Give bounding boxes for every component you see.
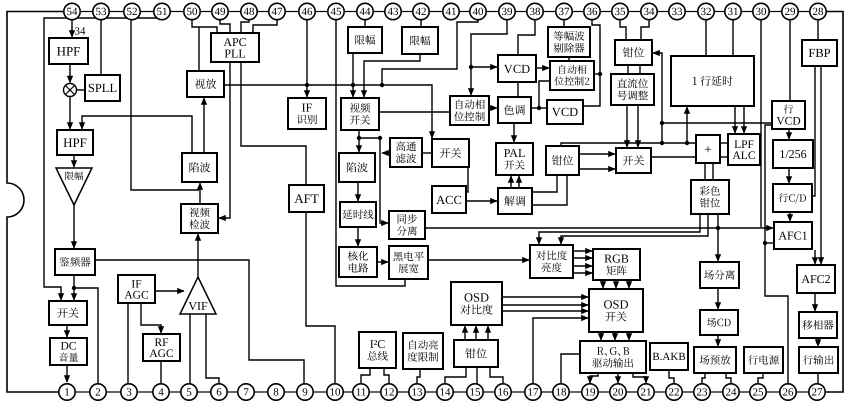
wire hue to VCD2 [531, 107, 547, 109]
pin 33 [669, 3, 685, 19]
wire pin49 to APC PLL [220, 20, 230, 33]
svg-text:AFC2: AFC2 [801, 272, 830, 286]
svg-text:34: 34 [644, 6, 656, 18]
block FM discriminator [55, 249, 95, 275]
wire field sep to field CD [717, 288, 719, 309]
junction node at 539,108 [537, 106, 541, 110]
wire pin34 to clamp1 [641, 20, 649, 40]
block DC level adjust [611, 74, 654, 105]
wire clamp1 to DC adjust b [639, 65, 641, 74]
block auto brightness limit [403, 333, 443, 369]
svg-text:ALC: ALC [733, 150, 756, 162]
block FBP [802, 40, 837, 66]
svg-text:50: 50 [187, 6, 199, 18]
wire APC PLL to AFT [241, 62, 306, 185]
wire node link [359, 137, 380, 139]
block limiter 4 [402, 27, 438, 54]
pin 20 [610, 384, 626, 400]
svg-text:6: 6 [216, 387, 222, 399]
block ACC [432, 186, 466, 213]
wire demod to PAL a [510, 176, 512, 188]
svg-text:14: 14 [440, 387, 452, 399]
svg-text:OSD: OSD [464, 291, 489, 305]
pin 37 [556, 3, 572, 19]
block PAL switch [496, 143, 533, 175]
pin 11 [353, 384, 369, 400]
block OSD switch [589, 289, 643, 332]
block AFC1 [774, 222, 812, 249]
svg-text:41: 41 [446, 6, 457, 18]
pin 14 [437, 384, 453, 400]
pin 50 [184, 3, 200, 19]
svg-text:2: 2 [95, 387, 101, 399]
pin 51 [154, 3, 170, 19]
wire IF AGC to pin3 [127, 303, 129, 384]
wire video switch to APC [379, 111, 450, 113]
pin 46 [299, 3, 315, 19]
wire line out to pin27 [817, 373, 819, 384]
wire VIF to pin6 [206, 314, 219, 384]
pin 41 [443, 3, 459, 19]
svg-text:38: 38 [530, 6, 542, 18]
pin 34 [641, 3, 657, 19]
junction node at 662,123 [660, 121, 664, 125]
wire RGB matrix to OSD switch b [615, 280, 617, 288]
mixer (multiplier) symbol [64, 84, 77, 97]
svg-text:4: 4 [158, 387, 164, 399]
svg-text:9: 9 [302, 387, 308, 399]
wire trap1 to video amp [203, 98, 205, 153]
wire 1/256 to line C/D [788, 168, 790, 183]
junction node at 662,143 [660, 141, 664, 145]
wire OSD contrast to OSD switch a [502, 296, 588, 298]
block RGB drive output [580, 341, 646, 373]
wire node to line VCD [662, 122, 772, 124]
wire field preamp to pin23 [702, 373, 705, 384]
svg-text:VCD: VCD [776, 116, 800, 128]
block adder [696, 135, 720, 163]
svg-text:37: 37 [559, 6, 571, 18]
wire FBP to line C/D [812, 66, 815, 196]
block B.AKB [650, 343, 688, 370]
svg-text:3: 3 [126, 387, 132, 399]
wire video switch down [358, 130, 360, 152]
pin 27 [809, 384, 825, 400]
wire phase shifter to line out [817, 338, 819, 346]
wire contrast to RGB matrix b [573, 257, 592, 259]
wire I2C to pin11 [361, 368, 370, 384]
block audio switch [49, 301, 87, 325]
junction node at 382,85 [380, 83, 384, 87]
block field CD [700, 310, 738, 335]
wire pin52 to video-detector line [131, 20, 199, 190]
wire APC2 loop down [539, 81, 550, 108]
svg-text:23: 23 [697, 387, 709, 399]
wire line supply to pin25 [758, 373, 763, 384]
block clamp 3 [454, 340, 498, 367]
wire pin53 to SPLL [100, 20, 102, 75]
pin 3 [121, 384, 137, 400]
block OSD contrast [451, 282, 502, 325]
svg-text:51: 51 [157, 6, 168, 18]
pin 48 [241, 3, 257, 19]
svg-text:IF: IF [302, 101, 313, 115]
svg-text:19: 19 [585, 387, 597, 399]
wire limiter3 to video switch [352, 53, 354, 97]
wire pin45 to black stretch [336, 20, 405, 286]
wire branch to AFC1 [765, 242, 773, 244]
wire contrast to RGB matrix c [573, 265, 592, 267]
wire line VCD to 1/256 [788, 129, 790, 139]
wire IF AGC to RF AGC [141, 303, 161, 333]
wire ACC to demod [466, 200, 497, 202]
block delay line [340, 202, 376, 227]
junction node at 600,74 [598, 72, 602, 76]
svg-text:VIF: VIF [188, 299, 208, 313]
wire OSD contrast to OSD switch c [502, 310, 588, 312]
wire RGB matrix to OSD switch c [628, 280, 630, 288]
junction node at 380,138 [378, 136, 382, 140]
wire HPF to switch2 [422, 152, 432, 154]
wire pin46 to bus [306, 20, 308, 85]
wire video detector to trap1 [199, 183, 201, 204]
pin 43 [385, 3, 401, 19]
junction node at 471,67 [469, 65, 473, 69]
pin 18 [553, 384, 569, 400]
wire clamp1 to DC adjust a [627, 65, 629, 74]
junction node at 74,288 [72, 286, 76, 290]
wire RGB matrix to OSD switch a [602, 280, 604, 288]
block APC PLL [211, 33, 259, 62]
block contrast brightness [530, 245, 573, 278]
svg-text:28: 28 [813, 6, 825, 18]
block phase shifter [799, 312, 837, 338]
block hue [498, 97, 531, 123]
block trap 1 [182, 153, 217, 182]
svg-text:42: 42 [416, 6, 427, 18]
wire pin17 to OSD switch [533, 318, 588, 384]
block switch 3 [616, 148, 651, 173]
svg-text:AFC1: AFC1 [778, 229, 807, 243]
pin 31 [725, 3, 741, 19]
pin 47 [269, 3, 285, 19]
block clamp 2 [546, 146, 579, 175]
block 1H delay [671, 56, 754, 106]
block AFT [289, 185, 324, 212]
wire DC adjust to switch3 b [637, 105, 639, 147]
pin 52 [124, 3, 140, 19]
svg-text:OSD: OSD [603, 298, 628, 312]
svg-text:39: 39 [502, 6, 514, 18]
VIF amplifier triangle [180, 277, 216, 314]
wire mixer to HPF2 [69, 97, 71, 130]
pin 25 [750, 384, 766, 400]
pin 39 [499, 3, 515, 19]
pin 54 [64, 3, 80, 19]
wire adder to color clamp b [712, 163, 714, 180]
junction node at 765,243 [763, 241, 767, 245]
wire pin48 to APC PLL [241, 20, 249, 33]
wire pin35 to clamp1 [620, 20, 626, 40]
wire RGB drive to pin19 [590, 373, 598, 383]
block video detector [181, 204, 218, 233]
wire B.AKB to pin22 [669, 370, 674, 384]
svg-text:20: 20 [613, 387, 625, 399]
svg-text:7: 7 [243, 387, 249, 399]
svg-text:40: 40 [473, 6, 485, 18]
wire AFT to pin10 [306, 212, 335, 384]
wire clamp2 demod loop a [531, 175, 557, 192]
block HPF 1 [49, 38, 88, 64]
svg-text:35: 35 [615, 6, 627, 18]
svg-text:AGC: AGC [124, 289, 149, 301]
wire pin47 to APC PLL [253, 20, 277, 33]
block line C/D [773, 184, 812, 212]
block VCD 2 [547, 100, 583, 124]
wire APC to hue [489, 107, 497, 109]
pin 35 [612, 3, 628, 19]
pin 22 [666, 384, 682, 400]
svg-text:53: 53 [96, 6, 108, 18]
pin 9 [297, 384, 313, 400]
svg-text:16: 16 [498, 387, 510, 399]
wire trap1 feedback to HPF2 [82, 116, 192, 153]
wire HPF2 to limiter [73, 155, 75, 167]
block DC volume [50, 338, 87, 365]
wire DC adjust to switch3 a [626, 105, 628, 147]
wire discriminator to switch [73, 275, 75, 300]
wire canceller to APC2 [568, 57, 570, 61]
svg-text:47: 47 [272, 6, 284, 18]
svg-text:27: 27 [812, 387, 824, 399]
junction node at 718,228 [716, 226, 720, 230]
wire video amp output bus [224, 85, 432, 138]
svg-text:44: 44 [360, 6, 372, 18]
wire pin42 to limiter4 [420, 20, 422, 27]
wire IF AGC to VIF [155, 290, 184, 292]
block RGB matrix [593, 249, 640, 280]
block clamp 1 [615, 40, 652, 65]
wire node to adder [662, 142, 696, 144]
pin 23 [694, 384, 710, 400]
wire OSD switch to RGB drive a [600, 332, 602, 340]
junction node at 353,85 [351, 83, 355, 87]
wire I2C to pin12 [384, 368, 389, 384]
wire OSD switch to RGB drive b [614, 332, 616, 340]
wire limiter to FM discriminator [73, 205, 75, 248]
wire clamp3 to pin14 [445, 367, 466, 384]
wire branch to pin2 [74, 288, 98, 384]
svg-text:17: 17 [528, 387, 540, 399]
svg-text:VCD: VCD [552, 105, 578, 119]
wire hue to PAL switch [513, 123, 515, 142]
pin 4 [153, 384, 169, 400]
wire OSD contrast to OSD switch b [502, 304, 588, 306]
svg-text:48: 48 [244, 6, 256, 18]
svg-text:29: 29 [785, 6, 797, 18]
svg-text:DC: DC [61, 341, 77, 353]
wire pin44 to limiter3 [364, 20, 366, 27]
wire clamp3 to pin15 [476, 367, 478, 384]
svg-text:25: 25 [753, 387, 765, 399]
svg-text:32: 32 [701, 6, 712, 18]
svg-text:43: 43 [388, 6, 400, 18]
junction node at 359,138 [357, 136, 361, 140]
wire clamp3 to pin16 [490, 367, 503, 384]
junction node at 818,342 [816, 340, 820, 344]
svg-text:21: 21 [641, 387, 652, 399]
svg-text:11: 11 [356, 387, 367, 399]
wire HPF out left [382, 152, 390, 154]
block auto phase control 2 [550, 61, 594, 90]
wire node to VCD1 [471, 66, 497, 68]
wire limiter4 to video switch [364, 54, 420, 97]
junction node at 307,85 [305, 83, 309, 87]
block limiter 3 [348, 27, 382, 53]
svg-text:I²C: I²C [370, 337, 386, 351]
pin 44 [357, 3, 373, 19]
wire OSD switch to RGB drive c [628, 332, 630, 340]
wire ABL to pin13 [417, 369, 420, 384]
wire FBP to AFC2 [820, 66, 822, 264]
block field separator [700, 262, 739, 288]
wire pin29 to line VCD [789, 20, 791, 101]
block line output [799, 347, 838, 373]
wire pin40 to bus [382, 20, 478, 85]
wire RGB drive to pin20 [617, 373, 619, 383]
pin 8 [268, 384, 284, 400]
svg-text:AGC: AGC [149, 348, 174, 360]
block field preamp [694, 347, 736, 373]
wire VIF to video detector [197, 234, 199, 277]
svg-text:PLL: PLL [224, 46, 245, 60]
block IF AGC [118, 275, 155, 303]
block black level stretch [389, 246, 428, 279]
wire discriminator to pin9 [95, 260, 304, 384]
wire field preamp to pin24 [726, 373, 731, 384]
block LPF ALC [728, 134, 760, 165]
pin 2 [90, 384, 106, 400]
wire VIF to pin5 [189, 314, 191, 384]
wire coring to black stretch [377, 261, 388, 263]
wire SPLL to mixer [77, 89, 85, 91]
pin 6 [211, 384, 227, 400]
svg-text:30: 30 [756, 6, 768, 18]
wire contrast to RGB matrix d [573, 272, 592, 274]
svg-text:B.AKB: B.AKB [652, 351, 685, 363]
wire VCD1 to APC2 [536, 67, 549, 69]
pin 53 [93, 3, 109, 19]
wire pin37 to canceller [563, 20, 565, 27]
block switch 2 [432, 139, 469, 167]
svg-text:10: 10 [330, 387, 342, 399]
block coring circuit [339, 247, 377, 277]
block line VCD [772, 101, 805, 129]
svg-text:12: 12 [384, 387, 395, 399]
pin 10 [327, 384, 343, 400]
block sync separator [389, 211, 425, 239]
block HPF 2 [57, 130, 93, 155]
svg-text:36: 36 [587, 6, 599, 18]
svg-text:22: 22 [669, 387, 680, 399]
pin 40 [470, 3, 486, 19]
wire 1H delay to LPF b [743, 106, 745, 133]
wire pin51 to switch [44, 18, 162, 300]
pin 24 [723, 384, 739, 400]
pin 42 [413, 3, 429, 19]
wire clamp3 to OSD contrast b [475, 326, 477, 340]
wire clamp2 to switch3 b [579, 168, 615, 170]
pin 26 [780, 384, 796, 400]
svg-text:49: 49 [215, 6, 227, 18]
block demodulator [498, 188, 532, 214]
svg-text:15: 15 [470, 387, 482, 399]
block video switch [341, 98, 379, 130]
wire delay line to coring [357, 227, 359, 246]
svg-text:52: 52 [127, 6, 138, 18]
svg-text:45: 45 [331, 6, 343, 18]
pin 38 [527, 3, 543, 19]
svg-text:1/256: 1/256 [779, 147, 806, 161]
wire pin32 to 1H delay [705, 20, 707, 56]
wire clamp chain up [653, 53, 662, 143]
pin 28 [810, 3, 826, 19]
svg-text:+: + [704, 141, 711, 156]
wire pin31 to 1H delay [732, 20, 734, 56]
pin 19 [582, 384, 598, 400]
wire pin50 branch to video amp [198, 27, 200, 71]
svg-text:ACC: ACC [436, 193, 462, 207]
wire HPF1 to mixer [69, 64, 71, 83]
wire demod to PAL b [518, 176, 520, 188]
wire switch3 to adder [651, 156, 696, 158]
svg-text:PAL: PAL [504, 146, 526, 160]
wire color clamp to field sep [717, 214, 719, 261]
pin 13 [409, 384, 425, 400]
wire pin38 to VCD1 [518, 20, 535, 55]
package right edge [825, 12, 843, 393]
pin 30 [753, 3, 769, 19]
block SPLL [85, 75, 120, 101]
wire branch to APC2 [594, 73, 600, 75]
block I2C bus [359, 332, 396, 368]
block IF identify [288, 98, 326, 129]
block 1/256 divider [773, 140, 813, 168]
svg-text:26: 26 [783, 387, 795, 399]
wire pin54 to HPF1 [71, 20, 73, 37]
pin 12 [381, 384, 397, 400]
svg-text:31: 31 [728, 6, 739, 18]
limiter triangle [56, 168, 92, 205]
pin 16 [495, 384, 511, 400]
block line supply [744, 347, 783, 373]
wire clamp2 top link [561, 143, 662, 146]
wire pin39 down [471, 20, 507, 67]
svg-text:1: 1 [64, 387, 70, 399]
wire color clamp to contrast b [561, 214, 708, 244]
package left edge with notch [7, 12, 64, 393]
wire sync to AFC1 bus [423, 227, 773, 229]
junction node at 687,143 [685, 141, 689, 145]
wire adder LPF link b [720, 156, 728, 158]
pin 15 [467, 384, 483, 400]
block VCD 1 [498, 55, 536, 82]
wire APC PLL to video detector [219, 62, 230, 218]
svg-text:33: 33 [672, 6, 684, 18]
wire field CD to field preamp [717, 335, 719, 346]
wire node to sync separator [380, 138, 388, 223]
wire clamp3 to OSD contrast c [487, 326, 489, 340]
